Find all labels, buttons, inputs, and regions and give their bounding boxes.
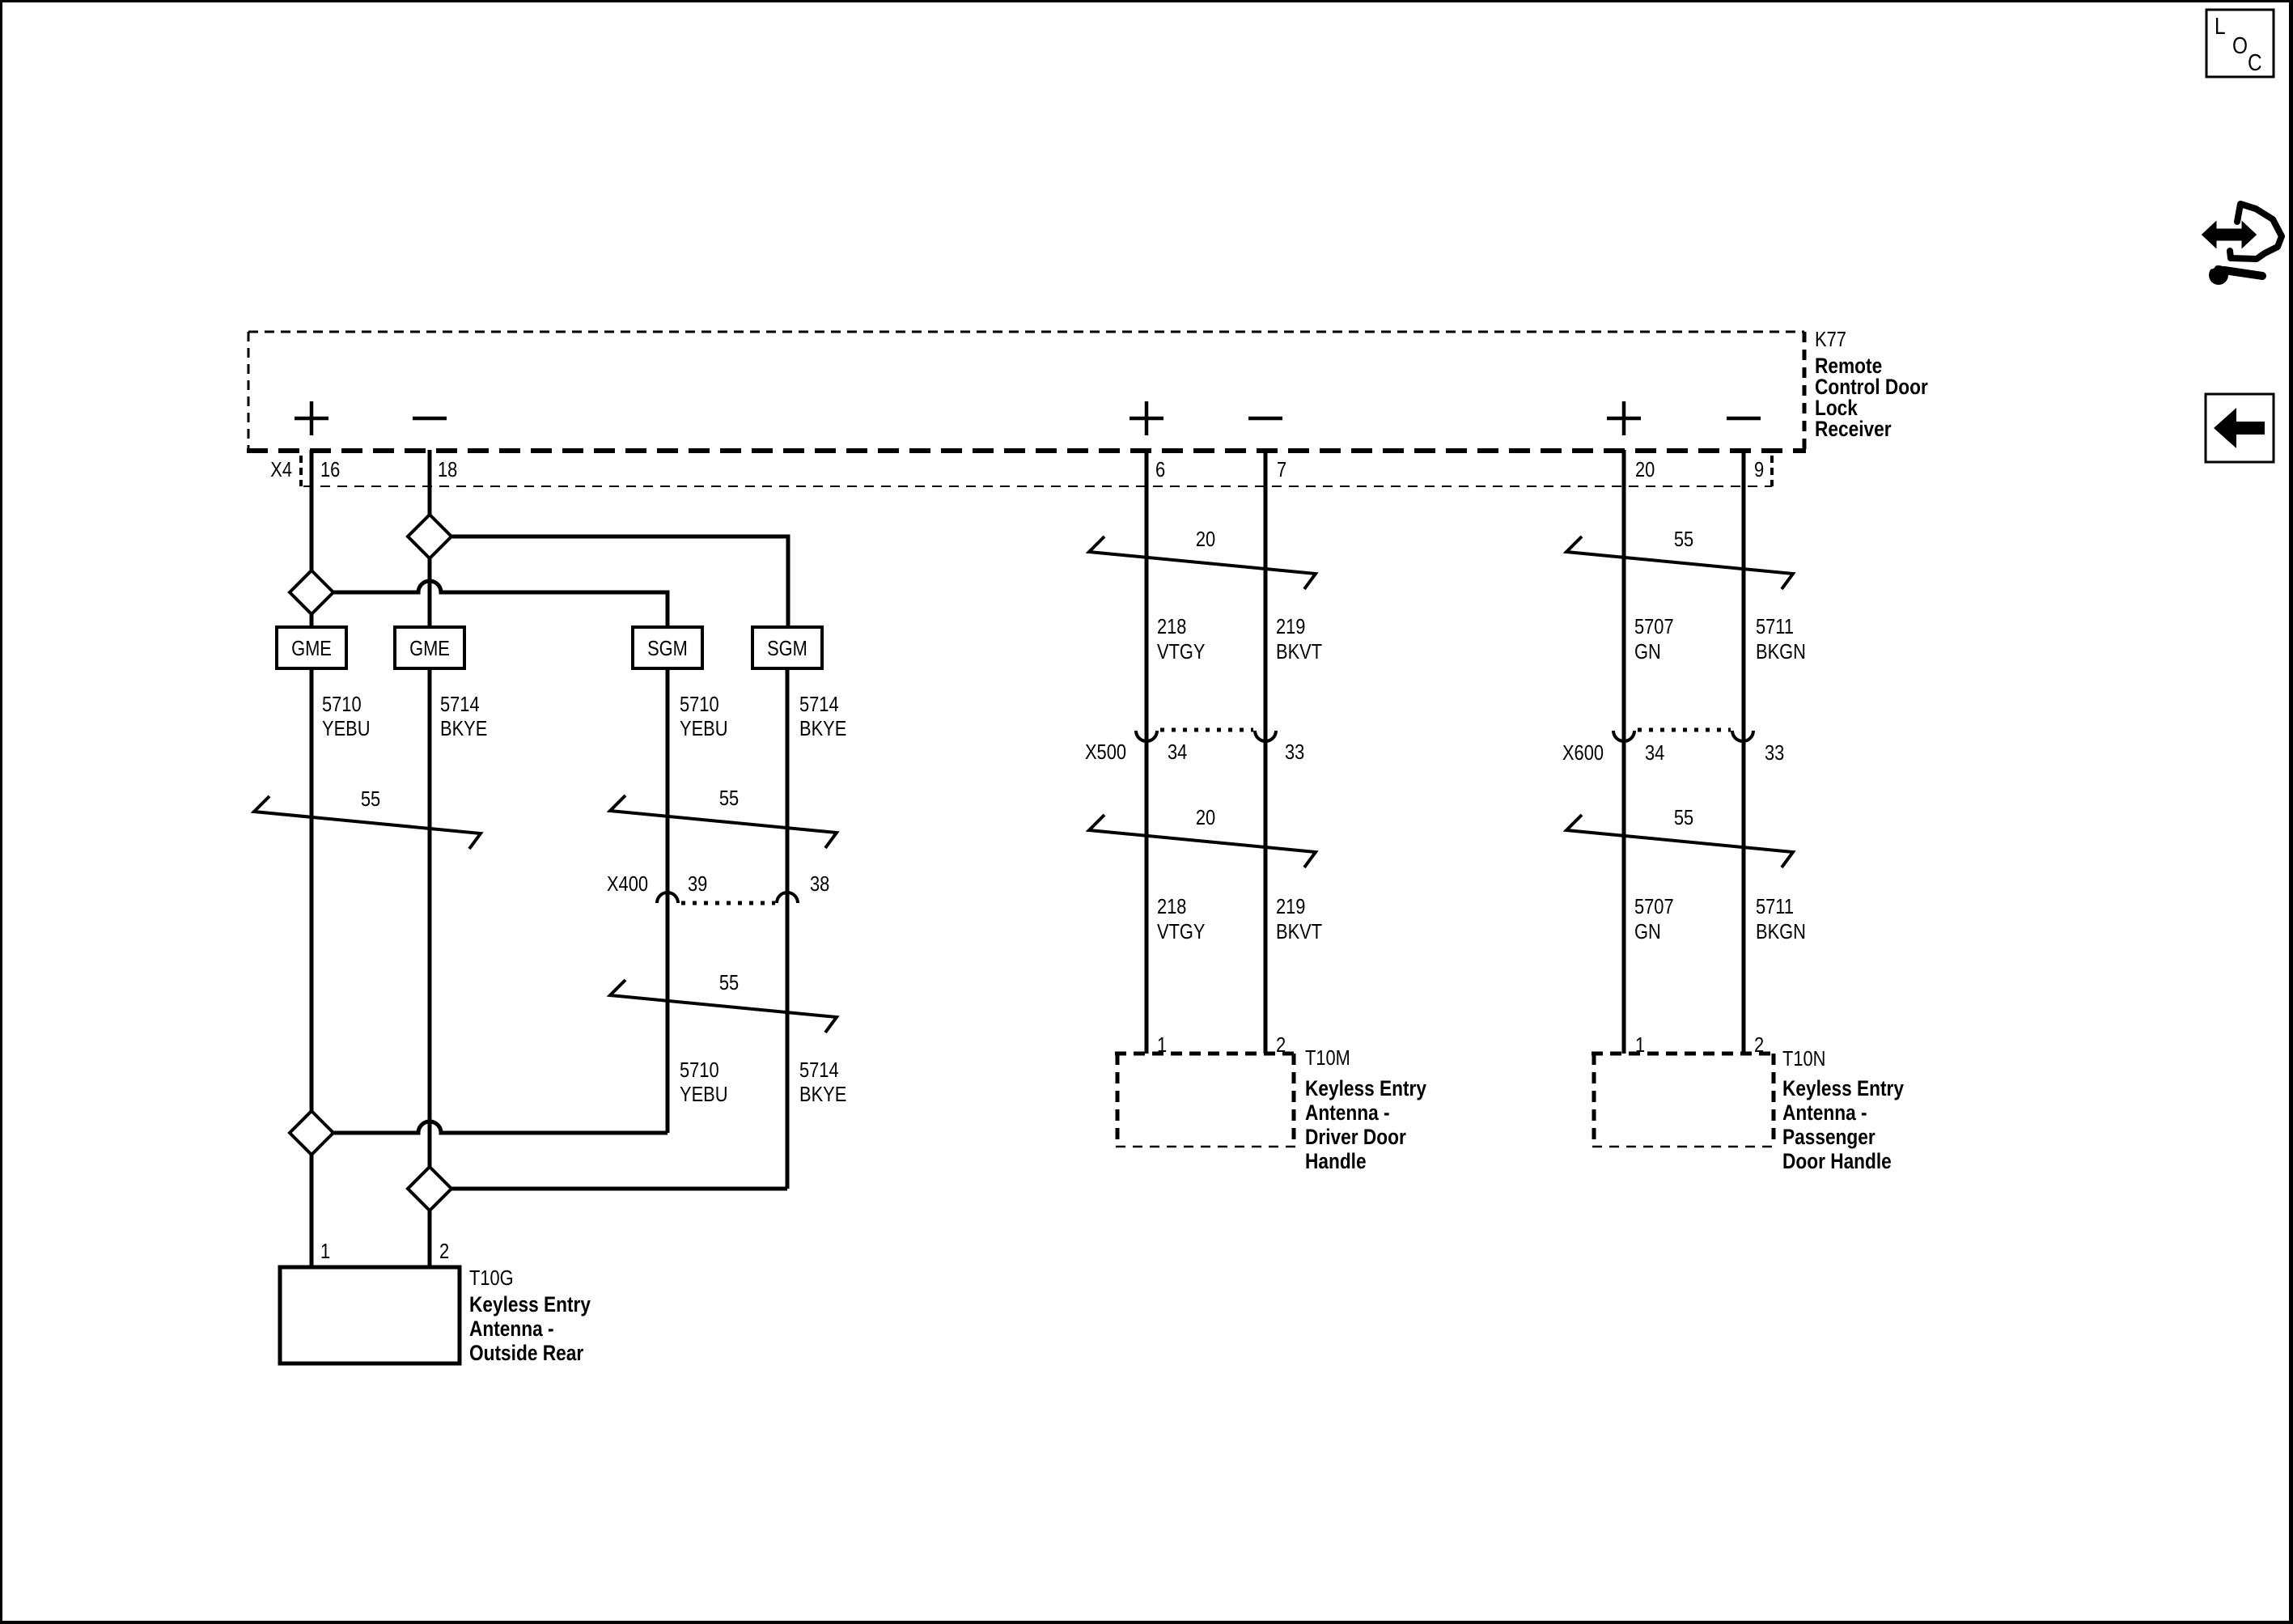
- back arrow icon: [2206, 394, 2274, 462]
- in-line connector X500 pins 34/33: [1085, 730, 1304, 764]
- wire label 5710 YEBU (GME left): [322, 692, 371, 740]
- terminal + (pin 6): [1130, 401, 1163, 435]
- harness crossing 55 on wires 20/9 lower: [1566, 805, 1793, 867]
- svg-text:BKYE: BKYE: [799, 716, 846, 740]
- svg-text:Keyless Entry: Keyless Entry: [1782, 1076, 1904, 1100]
- svg-text:5714: 5714: [799, 1058, 839, 1082]
- svg-text:X500: X500: [1085, 740, 1126, 764]
- wire return to splice S3 with hop over wire 18: [333, 1122, 668, 1133]
- harness crossing 55 on wires 20/9 upper: [1566, 527, 1793, 589]
- pin 20 label: [1635, 457, 1655, 481]
- svg-text:GME: GME: [409, 636, 450, 660]
- svg-text:O: O: [2232, 33, 2248, 59]
- svg-text:20: 20: [1635, 457, 1655, 481]
- LOC corner icon: [2206, 10, 2274, 77]
- harness crossing 55 on wires 16/18: [254, 787, 481, 849]
- wire label 5714 BKYE (GME right): [440, 692, 487, 740]
- svg-text:BKVT: BKVT: [1276, 639, 1322, 664]
- SGM takeout box left: [633, 627, 702, 668]
- svg-text:55: 55: [361, 787, 380, 811]
- T10G Keyless Entry Antenna - Outside Rear box: [280, 1267, 460, 1363]
- svg-text:218: 218: [1157, 894, 1186, 918]
- svg-text:1: 1: [1635, 1032, 1645, 1057]
- K77 Remote Control Door Lock Receiver dashed box: [247, 332, 1806, 452]
- svg-text:2: 2: [1754, 1032, 1764, 1057]
- wire 5710 YEBU pin 16 middle segment: [310, 614, 314, 1111]
- wire 5714 BKYE pin 18 upper segment: [428, 450, 432, 515]
- T10G pin 1 label: [320, 1239, 330, 1263]
- harness crossing 20 on wires 6/7 upper: [1089, 527, 1316, 589]
- terminal - (pin 18): [413, 417, 447, 421]
- wire 5714 BKYE SGM branch vertical: [786, 668, 790, 1189]
- T10N Keyless Entry Antenna - Passenger Door Handle dashed box: [1592, 1054, 1776, 1147]
- wire 5714 BKYE pin 18 middle segment: [428, 558, 432, 1167]
- T10G pin 2 label: [439, 1239, 449, 1263]
- svg-text:Antenna -: Antenna -: [469, 1317, 554, 1341]
- harness crossing 55 on SGM wires lower: [610, 970, 837, 1032]
- svg-text:6: 6: [1155, 457, 1165, 481]
- svg-text:BKGN: BKGN: [1756, 639, 1806, 664]
- wire label 219 BKVT lower: [1276, 894, 1322, 943]
- splice diamond S1 on wire 18: [408, 515, 451, 558]
- svg-text:20: 20: [1196, 527, 1215, 551]
- svg-text:Keyless Entry: Keyless Entry: [1305, 1076, 1426, 1100]
- svg-text:219: 219: [1276, 614, 1305, 638]
- svg-text:Antenna -: Antenna -: [1305, 1100, 1390, 1125]
- svg-text:SGM: SGM: [767, 636, 807, 660]
- svg-text:C: C: [2248, 50, 2262, 76]
- splice diamond S4 on wire 18: [408, 1167, 451, 1211]
- svg-text:Keyless Entry: Keyless Entry: [469, 1292, 591, 1317]
- svg-text:Passenger: Passenger: [1782, 1125, 1876, 1149]
- svg-text:39: 39: [688, 871, 707, 896]
- svg-text:2: 2: [1276, 1032, 1286, 1057]
- in-line connector X400 pins 39/38: [607, 871, 829, 903]
- pin 6 label: [1155, 457, 1165, 481]
- wire label 5707 GN upper: [1634, 614, 1674, 664]
- svg-text:5710: 5710: [322, 692, 362, 716]
- wire branch from splice S1 to SGM (right): [451, 536, 788, 627]
- svg-text:2: 2: [439, 1239, 449, 1263]
- T10M pin 2 label: [1276, 1032, 1286, 1057]
- svg-text:55: 55: [719, 786, 739, 810]
- T10M label text: [1305, 1045, 1426, 1173]
- T10N pin 2 label: [1754, 1032, 1764, 1057]
- wire 5711 BKGN pin 9: [1742, 450, 1746, 1054]
- splice diamond S2 on wire 16: [290, 570, 333, 614]
- wire label 5711 BKGN upper: [1756, 614, 1806, 664]
- svg-text:Door Handle: Door Handle: [1782, 1149, 1892, 1173]
- wire label 5710 YEBU (below X400): [680, 1058, 728, 1106]
- svg-text:55: 55: [1674, 805, 1693, 829]
- T10N label text: [1782, 1046, 1904, 1173]
- T10M pin 1 label: [1157, 1032, 1167, 1057]
- wire label 5714 BKYE (below X400): [799, 1058, 846, 1106]
- wire label 5710 YEBU (SGM left): [680, 692, 728, 740]
- in-line connector X600 pins 34/33: [1562, 730, 1784, 765]
- svg-text:7: 7: [1277, 457, 1286, 481]
- svg-text:55: 55: [1674, 527, 1693, 551]
- svg-text:Antenna -: Antenna -: [1782, 1100, 1867, 1125]
- GME takeout box on wire 16: [277, 627, 346, 668]
- svg-text:5710: 5710: [680, 1058, 719, 1082]
- wire return to splice S4: [451, 1187, 787, 1191]
- K77 label: [1815, 327, 1928, 441]
- T10N pin 1 label: [1635, 1032, 1645, 1057]
- svg-text:T10G: T10G: [469, 1266, 514, 1290]
- svg-text:BKYE: BKYE: [440, 716, 487, 740]
- T10M Keyless Entry Antenna - Driver Door Handle dashed box: [1115, 1054, 1296, 1147]
- svg-text:GME: GME: [291, 636, 332, 660]
- svg-text:L: L: [2215, 14, 2226, 40]
- wire 218 VTGY pin 6: [1145, 450, 1149, 1054]
- svg-text:5707: 5707: [1634, 894, 1674, 918]
- wire label 5707 GN lower: [1634, 894, 1674, 943]
- wire label 5711 BKGN lower: [1756, 894, 1806, 943]
- svg-text:55: 55: [719, 970, 739, 994]
- svg-text:5714: 5714: [440, 692, 480, 716]
- wire label 218 VTGY lower: [1157, 894, 1206, 943]
- svg-text:Receiver: Receiver: [1815, 417, 1892, 441]
- svg-text:K77: K77: [1815, 327, 1846, 351]
- svg-text:219: 219: [1276, 894, 1305, 918]
- wire 5710 YEBU SGM branch vertical: [666, 668, 670, 1133]
- svg-text:1: 1: [320, 1239, 330, 1263]
- pin 7 label: [1277, 457, 1286, 481]
- svg-text:5707: 5707: [1634, 614, 1674, 638]
- svg-text:BKVT: BKVT: [1276, 919, 1322, 943]
- svg-text:34: 34: [1168, 740, 1187, 764]
- wire 219 BKVT pin 7: [1264, 450, 1268, 1054]
- connector X4 pin band: [301, 456, 1772, 486]
- wire 5710 YEBU pin 16 upper segment: [310, 450, 314, 570]
- wire 5707 GN pin 20: [1622, 450, 1626, 1054]
- T10G label text: [469, 1266, 591, 1365]
- svg-text:BKGN: BKGN: [1756, 919, 1806, 943]
- svg-text:X4: X4: [270, 457, 292, 481]
- svg-text:5711: 5711: [1756, 894, 1794, 918]
- harness crossing 20 on wires 6/7 lower: [1089, 805, 1316, 867]
- svg-text:VTGY: VTGY: [1157, 919, 1206, 943]
- svg-text:34: 34: [1645, 740, 1664, 765]
- svg-text:GN: GN: [1634, 639, 1661, 664]
- svg-text:YEBU: YEBU: [322, 716, 371, 740]
- terminal - (pin 7): [1248, 417, 1282, 421]
- svg-text:Handle: Handle: [1305, 1149, 1367, 1173]
- svg-text:1: 1: [1157, 1032, 1167, 1057]
- svg-text:X600: X600: [1562, 740, 1604, 765]
- svg-text:Driver Door: Driver Door: [1305, 1125, 1406, 1149]
- svg-text:9: 9: [1754, 457, 1764, 481]
- wire label 5714 BKYE (SGM right): [799, 692, 846, 740]
- harness routing icon (double arrow, hook, wrench): [2203, 204, 2282, 285]
- terminal + (pin 16): [295, 401, 328, 435]
- svg-text:218: 218: [1157, 614, 1186, 638]
- harness crossing 55 on SGM wires upper: [610, 786, 837, 848]
- svg-text:VTGY: VTGY: [1157, 639, 1206, 664]
- wire 5710 YEBU pin 16 lower segment to T10G pin 1: [310, 1155, 314, 1267]
- GME takeout box on wire 18: [395, 627, 464, 668]
- splice diamond S3 on wire 16: [290, 1111, 333, 1155]
- wire label 218 VTGY upper: [1157, 614, 1206, 664]
- pin 9 label: [1754, 457, 1764, 481]
- svg-text:16: 16: [320, 457, 340, 481]
- wire 5714 BKYE pin 18 lower segment to T10G pin 2: [428, 1211, 432, 1267]
- svg-text:GN: GN: [1634, 919, 1661, 943]
- svg-text:T10N: T10N: [1782, 1046, 1825, 1071]
- svg-text:20: 20: [1196, 805, 1215, 829]
- svg-text:Outside Rear: Outside Rear: [469, 1341, 584, 1365]
- svg-text:T10M: T10M: [1305, 1045, 1350, 1070]
- svg-text:YEBU: YEBU: [680, 1082, 728, 1106]
- svg-text:5710: 5710: [680, 692, 719, 716]
- svg-text:X400: X400: [607, 871, 648, 896]
- svg-text:BKYE: BKYE: [799, 1082, 846, 1106]
- pin 16 label: [320, 457, 340, 481]
- svg-text:5714: 5714: [799, 692, 839, 716]
- wire label 219 BKVT upper: [1276, 614, 1322, 664]
- wire branch from splice S2 to SGM (left) with hop over wire 18: [333, 581, 668, 627]
- svg-text:33: 33: [1765, 740, 1784, 765]
- svg-text:38: 38: [810, 871, 829, 896]
- svg-text:YEBU: YEBU: [680, 716, 728, 740]
- svg-text:5711: 5711: [1756, 614, 1794, 638]
- terminal + (pin 20): [1607, 401, 1641, 435]
- SGM takeout box right: [752, 627, 822, 668]
- svg-text:33: 33: [1285, 740, 1304, 764]
- terminal - (pin 9): [1727, 417, 1761, 421]
- svg-text:SGM: SGM: [647, 636, 688, 660]
- pin 18 label: [438, 457, 457, 481]
- svg-text:18: 18: [438, 457, 457, 481]
- X4 label: [270, 457, 292, 481]
